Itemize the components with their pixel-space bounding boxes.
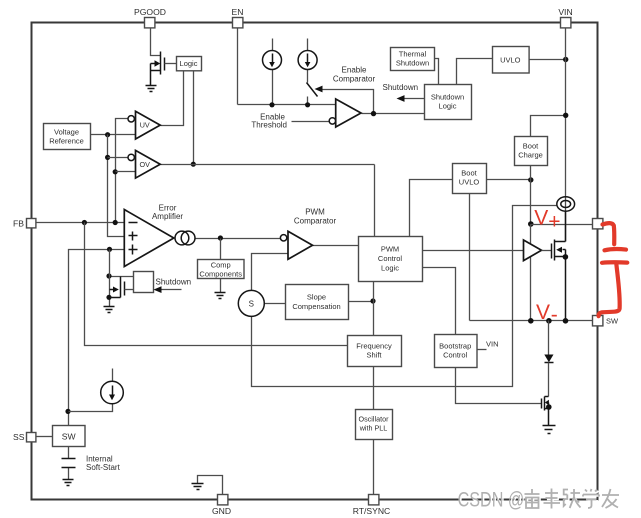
ground internal to GND pin xyxy=(192,484,204,490)
pin EN xyxy=(233,18,243,28)
wire voltage reference to UV input xyxy=(91,134,136,136)
wire SS current source stubs xyxy=(69,369,113,412)
svg-text:Shift: Shift xyxy=(366,351,382,360)
svg-text:Charge: Charge xyxy=(518,151,543,160)
wire frequency shift to oscillator xyxy=(373,367,375,410)
comparator enable xyxy=(336,99,361,127)
slope compensation box xyxy=(286,285,349,320)
svg-text:Boot: Boot xyxy=(523,142,539,151)
wire boot charge down to V+ node xyxy=(530,166,532,225)
wire VIN pin down to current sense xyxy=(565,28,567,242)
logic box U2 xyxy=(177,57,202,71)
pin VIN xyxy=(561,18,571,28)
svg-text:Slope: Slope xyxy=(307,293,326,302)
red annotation capacitor top plate xyxy=(605,249,627,250)
svg-text:Shutdown: Shutdown xyxy=(156,278,192,287)
comp components box xyxy=(198,260,245,279)
red annotation lead from BOOT pin xyxy=(603,223,615,244)
node boot rail junction xyxy=(528,177,533,182)
svg-text:Comparator: Comparator xyxy=(333,74,376,83)
frequency shift box xyxy=(348,336,402,367)
svg-text:V: V xyxy=(534,207,548,230)
svg-text:UVLO: UVLO xyxy=(459,178,480,187)
wire PWM control logic down to frequency shift xyxy=(373,282,375,336)
current source I1 xyxy=(263,51,282,70)
node reference-UV junction xyxy=(105,132,110,137)
wire S to slope compensation xyxy=(265,303,286,305)
wire UV output to logic xyxy=(161,71,184,126)
red annotation capacitor bottom plate xyxy=(602,260,627,265)
capacitor internal soft-start xyxy=(62,459,76,468)
svg-text:Threshold: Threshold xyxy=(251,121,287,130)
wire SW block to soft-start capacitor xyxy=(68,447,70,480)
wire bootstrap control to low-side gate xyxy=(456,368,542,404)
svg-text:Enable: Enable xyxy=(342,66,367,75)
wire boot charge top to VIN rail xyxy=(531,116,566,137)
wire driver supply rail xyxy=(530,225,532,321)
svg-text:VIN: VIN xyxy=(486,339,499,348)
svg-text:Shutdown: Shutdown xyxy=(431,93,464,102)
transistor Q2 shutdown FET xyxy=(110,277,134,298)
wire FB vertical to UV bubble input xyxy=(116,119,128,223)
svg-text:Shutdown: Shutdown xyxy=(396,59,429,68)
pin BOOT xyxy=(593,219,603,229)
wire enable comparator output to shutdown logic xyxy=(362,113,425,115)
svg-text:PGOOD: PGOOD xyxy=(134,7,166,17)
wire comp components connection xyxy=(220,239,222,293)
arrow shutdown into box xyxy=(161,289,182,291)
wire shutdown FET drain to shutdown box xyxy=(110,276,134,278)
wire soft-start to error amp third input xyxy=(69,250,125,426)
ground for Q4 xyxy=(543,426,556,434)
UVLO box xyxy=(493,47,530,74)
wire enable threshold input xyxy=(292,121,330,123)
gm output symbol of error amplifier xyxy=(175,231,189,245)
svg-text:V: V xyxy=(536,301,550,324)
wire switch bottom stub xyxy=(307,97,309,105)
svg-text:Control: Control xyxy=(378,254,403,263)
node V- junction B xyxy=(546,318,552,324)
oscillator with PLL box xyxy=(356,410,393,440)
boot UVLO box xyxy=(453,164,487,194)
wire bootstrap control VIN stub xyxy=(477,349,487,351)
svg-text:Reference: Reference xyxy=(49,136,84,145)
comparator OV xyxy=(136,150,161,178)
svg-text:UVLO: UVLO xyxy=(500,56,521,65)
wire FB pin to error amplifier xyxy=(37,222,125,224)
svg-text:S: S xyxy=(249,300,254,309)
node shutdown drain junction xyxy=(106,273,111,278)
svg-text:Compensation: Compensation xyxy=(292,302,340,311)
svg-text:RT/SYNC: RT/SYNC xyxy=(353,506,391,516)
node SS line junction xyxy=(65,409,70,414)
transistor Q4 low-side FET xyxy=(542,397,552,426)
ground for Q1 xyxy=(146,86,157,92)
pin GND xyxy=(218,495,228,505)
svg-text:Comparator: Comparator xyxy=(294,216,337,225)
bootstrap control box xyxy=(435,335,478,368)
node I2-rail junction xyxy=(305,102,310,107)
transistor Q1 PGOOD pull-down FET xyxy=(151,52,177,86)
pin FB xyxy=(27,219,36,228)
svg-text:Frequency: Frequency xyxy=(356,341,392,350)
wire enable rail xyxy=(238,104,336,106)
wire V+ line to BOOT pin xyxy=(531,224,593,226)
wire S summing node to PWM comparator lower input xyxy=(252,254,289,291)
node V- junction A xyxy=(528,318,534,324)
node logic-OV junction xyxy=(191,162,196,167)
svg-text:Amplifier: Amplifier xyxy=(152,212,183,221)
wire switch control from enable comparator output xyxy=(322,90,374,114)
wire PWM control logic to high-side driver xyxy=(423,250,524,252)
pin SW xyxy=(593,316,603,326)
svg-text:SW: SW xyxy=(606,317,619,326)
svg-text:VIN: VIN xyxy=(558,7,572,17)
op-amp high-side gate driver xyxy=(524,240,542,261)
svg-text:Voltage: Voltage xyxy=(54,127,79,136)
node slope comp junction xyxy=(370,298,375,303)
diode D1 xyxy=(544,321,553,397)
node V+ junction xyxy=(528,221,534,227)
shutdown control box near error amp xyxy=(134,272,154,293)
svg-text:+: + xyxy=(548,211,560,234)
svg-text:Oscillator: Oscillator xyxy=(359,415,390,424)
svg-text:Logic: Logic xyxy=(381,264,399,273)
pin PGOOD xyxy=(145,18,155,28)
ground for Q2 xyxy=(104,307,115,313)
wire OV output to PWM logic vertical xyxy=(161,164,375,166)
svg-text:Comp: Comp xyxy=(211,261,231,270)
svg-text:GND: GND xyxy=(212,506,231,516)
svg-text:PWM: PWM xyxy=(381,245,399,254)
node FB line junction B xyxy=(113,220,118,225)
wire thermal shutdown to shutdown logic xyxy=(435,59,439,85)
svg-text:Control: Control xyxy=(443,351,468,360)
wire reference vertical to error amp input xyxy=(108,135,125,237)
wire FB to frequency shift xyxy=(85,223,348,346)
boot charge box xyxy=(515,137,548,166)
wire reference to OV bubble input xyxy=(108,157,128,159)
svg-text:EN: EN xyxy=(232,7,244,17)
voltage reference box xyxy=(44,124,91,150)
ground for soft-start xyxy=(63,480,74,486)
svg-text:Bootstrap: Bootstrap xyxy=(439,341,471,350)
wire shutdown FET vertical to ground xyxy=(109,250,111,307)
node boot charge-VIN junction xyxy=(563,113,568,118)
svg-text:Thermal: Thermal xyxy=(399,50,427,59)
wire boot UVLO bottom to V- line xyxy=(469,194,471,321)
shutdown logic box xyxy=(425,85,472,120)
pin RT/SYNC xyxy=(369,495,379,505)
svg-text:Components: Components xyxy=(199,269,242,278)
wire oscillator to RT/SYNC pin xyxy=(373,440,375,495)
svg-text:Shutdown: Shutdown xyxy=(383,83,419,92)
summing node S xyxy=(238,290,264,316)
wire slope compensation to frequency-shift vertical xyxy=(349,301,374,303)
wire SS pin to SW block xyxy=(37,436,53,438)
wire S bottom to current sense xyxy=(252,206,557,387)
wire PWM comparator output to PWM control logic xyxy=(313,245,359,247)
wire current source I1 stubs xyxy=(272,39,274,105)
node reference-OV junction xyxy=(105,155,110,160)
node FB line junction A xyxy=(82,220,87,225)
svg-text:OV: OV xyxy=(140,160,151,169)
wire EN pin down to enable rail xyxy=(237,28,239,105)
wire error amplifier output to PWM comparator xyxy=(196,238,281,240)
svg-text:UV: UV xyxy=(140,121,150,130)
svg-text:CSDN @: CSDN @ xyxy=(458,488,525,512)
ground for comp components xyxy=(215,293,226,299)
op-amp U1 error amplifier xyxy=(124,210,174,267)
pin SS xyxy=(27,433,36,442)
wire GND pin to internal ground xyxy=(198,476,223,495)
svg-text:PWM: PWM xyxy=(305,208,325,217)
arrow switch control xyxy=(315,86,323,93)
current source I3 soft-start xyxy=(101,381,124,404)
wire FB to OV lower input xyxy=(116,171,136,173)
wire logic to OV output line xyxy=(193,71,195,165)
node enable comparator output xyxy=(371,111,376,116)
svg-text:Logic: Logic xyxy=(180,59,198,68)
comparator PWM xyxy=(288,231,313,259)
node FB-OV junction xyxy=(113,169,118,174)
node I1-rail junction xyxy=(269,102,274,107)
SW block soft-start xyxy=(53,426,86,447)
svg-text:Soft-Start: Soft-Start xyxy=(86,463,121,472)
wire PGOOD pin to PMOS drain xyxy=(151,28,161,56)
comparator UV xyxy=(136,111,161,139)
svg-text:with PLL: with PLL xyxy=(359,424,388,433)
current sense element xyxy=(557,197,575,211)
wire PWM control logic to bootstrap control xyxy=(423,268,456,335)
red annotation lead to SW pin xyxy=(599,264,620,317)
wire boot UVLO left to PWM control logic xyxy=(410,180,453,237)
wire current source I2 stubs xyxy=(307,39,309,83)
node shutdown source junction xyxy=(106,295,111,300)
svg-text:-: - xyxy=(551,304,558,327)
thermal shutdown box xyxy=(391,48,435,71)
node UVLO-VIN junction xyxy=(563,57,568,62)
wire boot UVLO right to boot charge rail xyxy=(487,179,531,181)
wire UVLO to VIN rail xyxy=(529,59,566,61)
PWM control logic box xyxy=(359,237,423,282)
node error amp output junction xyxy=(218,235,223,240)
svg-text:Logic: Logic xyxy=(439,102,457,111)
svg-text:SS: SS xyxy=(13,432,25,442)
transistor Q3 high-side power FET xyxy=(552,212,569,321)
svg-text:SW: SW xyxy=(62,432,77,442)
wire OV corner down to PWM control logic xyxy=(374,165,376,237)
wire V- line to SW pin xyxy=(470,320,593,322)
wire UVLO to shutdown logic xyxy=(457,59,493,85)
svg-text:Boot: Boot xyxy=(461,169,477,178)
node soft-start input junction xyxy=(107,247,112,252)
node V- junction C xyxy=(563,318,569,324)
wire driver to gate xyxy=(542,250,552,252)
svg-text:FB: FB xyxy=(13,218,24,228)
switch for enable hysteresis xyxy=(307,83,318,97)
current source I2 xyxy=(298,51,317,70)
